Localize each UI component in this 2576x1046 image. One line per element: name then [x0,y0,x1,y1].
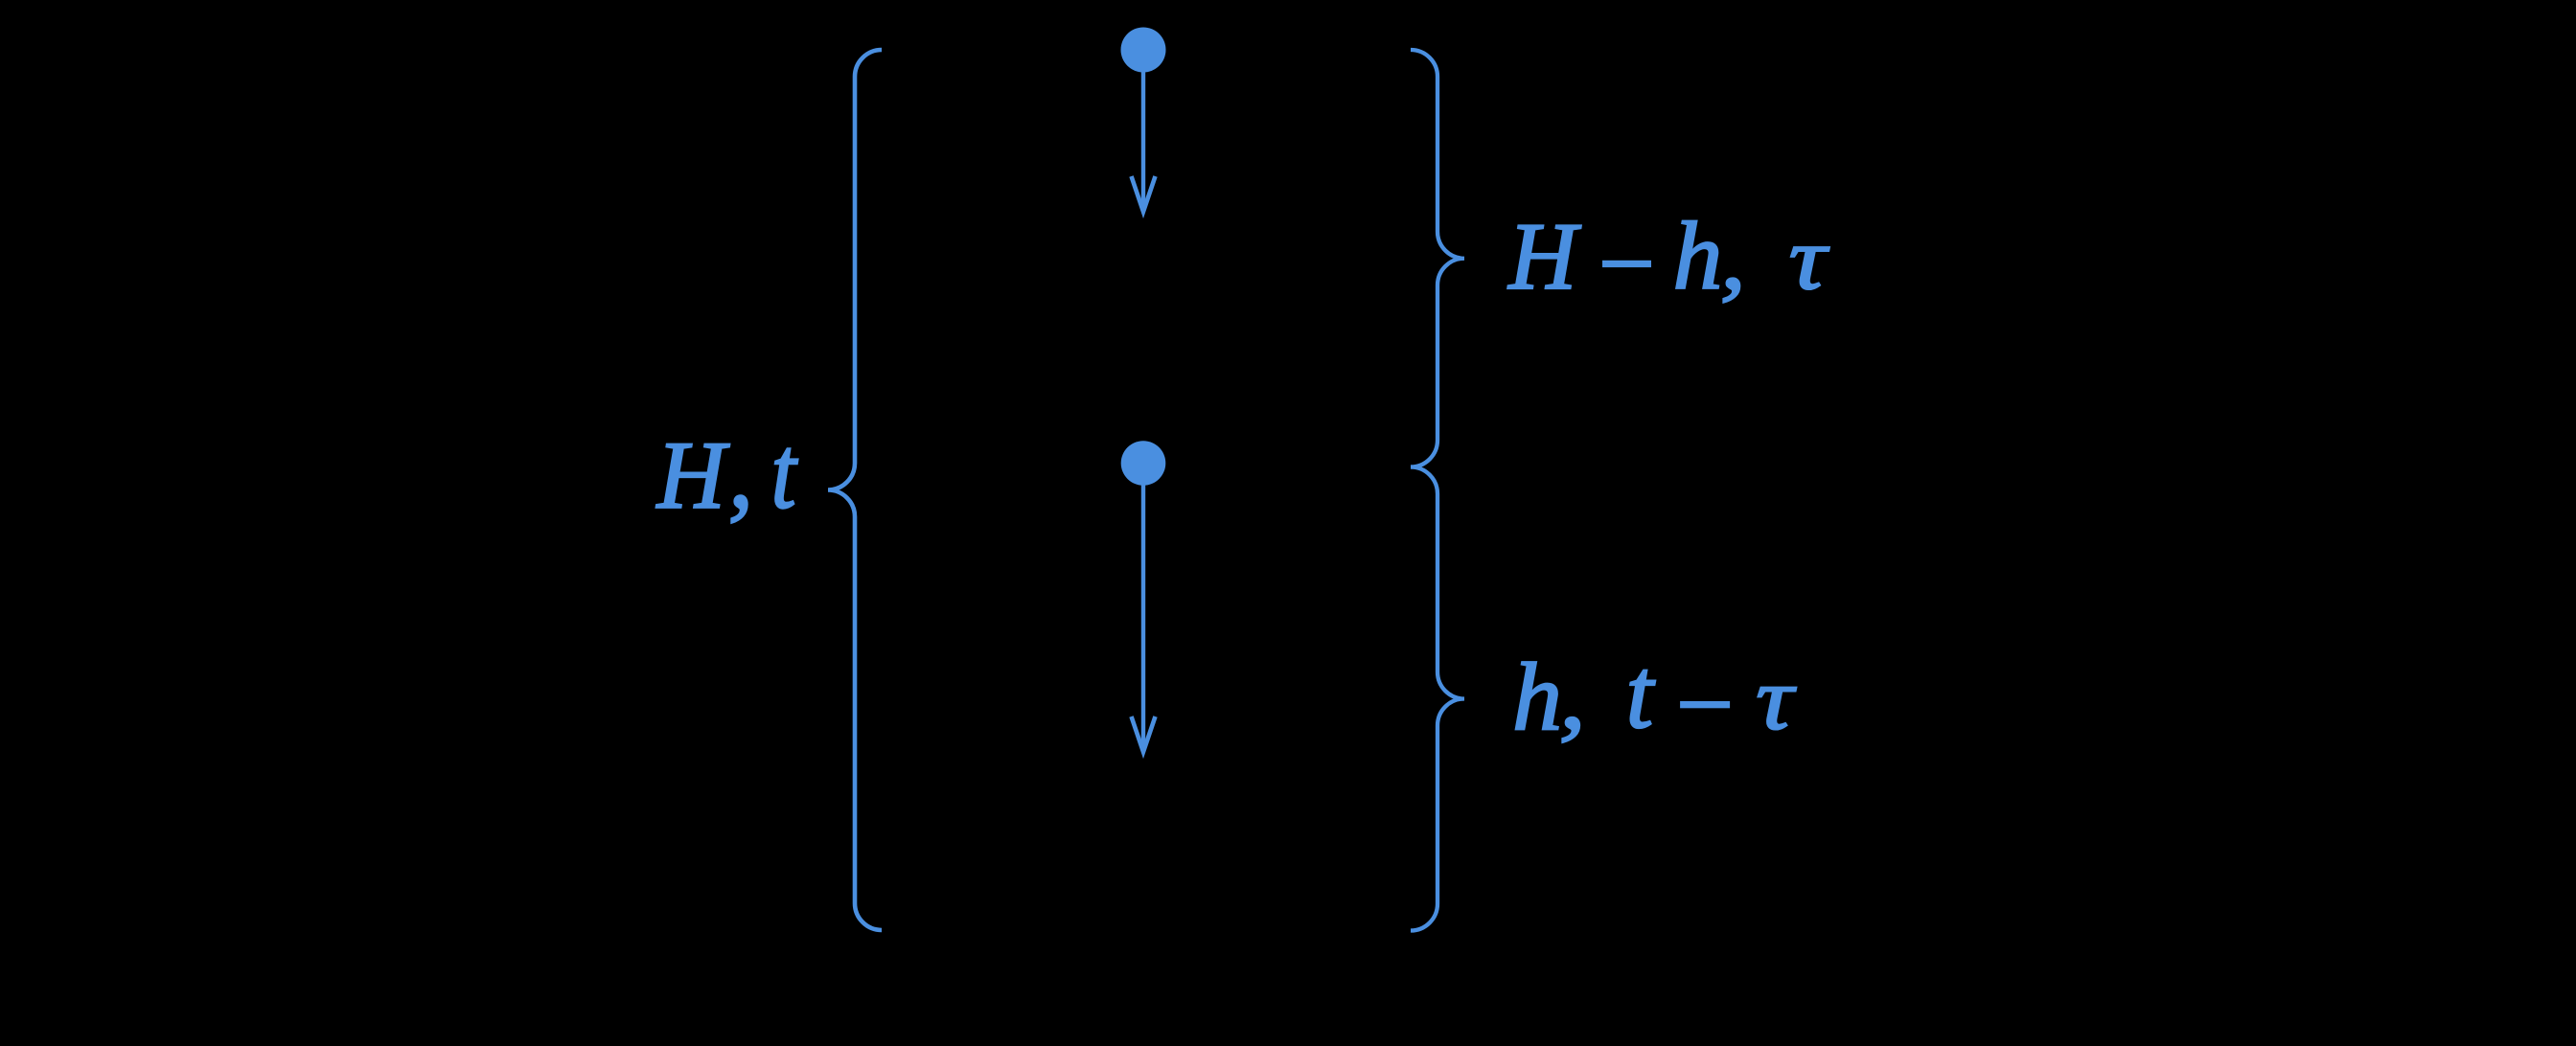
svg-text:H: H [1506,204,1581,309]
left big brace spanning full height, labeled H,t [828,50,882,930]
arrow 2 open head [1132,716,1156,752]
label h, t - tau [1512,639,1797,751]
right brace lower, labeled h, t-tau [1411,467,1464,931]
label H,t [655,415,799,531]
arrow 1 shaft [1141,72,1145,210]
arrow 1 open head [1132,176,1156,212]
svg-text:,: , [1559,643,1586,749]
right brace upper, labeled H-h, tau [1411,50,1464,467]
svg-text:τ: τ [1756,649,1797,748]
svg-text:t: t [771,415,799,530]
svg-text:t: t [1626,639,1656,749]
svg-text:h: h [1673,203,1723,309]
svg-text:,: , [1720,205,1746,308]
arrow 2 shaft [1141,485,1145,750]
svg-text:H: H [655,421,730,529]
label H - h, tau [1506,203,1829,309]
svg-text:τ: τ [1789,209,1830,308]
upper ball [1121,28,1166,73]
middle ball [1121,441,1166,486]
svg-text:h: h [1512,645,1562,752]
svg-text:,: , [728,415,753,531]
